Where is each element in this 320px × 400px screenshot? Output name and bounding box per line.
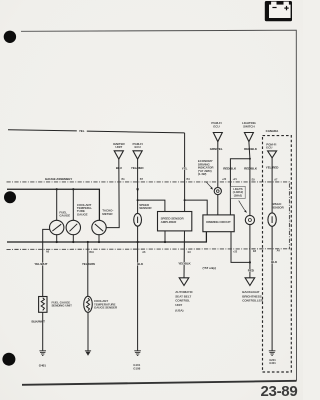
- svg-text:YEL/BLK: YEL/BLK: [178, 262, 191, 266]
- svg-text:GAUGE: GAUGE: [59, 214, 70, 218]
- svg-text:CANADA: CANADA: [266, 129, 280, 133]
- svg-text:+20: +20: [222, 177, 227, 181]
- svg-text:RED/BLK: RED/BLK: [244, 166, 258, 170]
- svg-text:DIMMING CIRCUIT: DIMMING CIRCUIT: [206, 220, 231, 224]
- svg-text:YEL/WHT: YEL/WHT: [34, 262, 47, 266]
- svg-text:G108: G108: [133, 366, 140, 370]
- svg-text:G401: G401: [269, 361, 276, 365]
- svg-text:(3Wx2): (3Wx2): [234, 193, 242, 197]
- svg-text:BLK: BLK: [137, 262, 144, 266]
- svg-text:GAUGE: GAUGE: [77, 212, 88, 216]
- svg-text:ECU: ECU: [135, 145, 141, 149]
- svg-text:BLK: BLK: [271, 260, 278, 264]
- svg-text:YEL: YEL: [79, 129, 85, 133]
- svg-text:SENSOR: SENSOR: [272, 205, 285, 209]
- svg-text:SENSOR: SENSOR: [139, 206, 152, 210]
- svg-text:AMPLIFIER: AMPLIFIER: [161, 220, 178, 224]
- svg-text:+22: +22: [233, 249, 238, 253]
- svg-text:CONTROLLER: CONTROLLER: [242, 299, 263, 303]
- svg-text:(USA): (USA): [175, 308, 183, 312]
- svg-text:RED: RED: [248, 269, 255, 273]
- svg-text:GRN/YEL: GRN/YEL: [210, 147, 223, 151]
- svg-text:ECU: ECU: [266, 146, 272, 150]
- svg-text:GAUGE SENDER: GAUGE SENDER: [94, 306, 118, 310]
- svg-text:+21: +21: [233, 177, 238, 181]
- svg-text:23-89: 23-89: [261, 383, 298, 400]
- svg-text:UNIT: UNIT: [115, 145, 122, 149]
- svg-text:B10: B10: [89, 250, 94, 254]
- svg-text:SENDING UNIT: SENDING UNIT: [52, 304, 73, 308]
- svg-text:YEL: YEL: [182, 167, 188, 171]
- svg-text:SWITCH: SWITCH: [243, 124, 254, 128]
- svg-text:METER: METER: [102, 212, 113, 216]
- svg-text:BLK/WHT: BLK/WHT: [32, 319, 46, 323]
- svg-text:(*AT only): (*AT only): [203, 266, 216, 270]
- svg-text:UNIT: UNIT: [175, 303, 182, 307]
- svg-text:G401: G401: [39, 364, 46, 368]
- svg-text:RED/BLK: RED/BLK: [244, 147, 258, 151]
- svg-text:GAUGE ASSEMBLY: GAUGE ASSEMBLY: [45, 177, 72, 181]
- svg-text:(1.4W): (1.4W): [198, 172, 207, 176]
- svg-text:ECU: ECU: [213, 124, 219, 128]
